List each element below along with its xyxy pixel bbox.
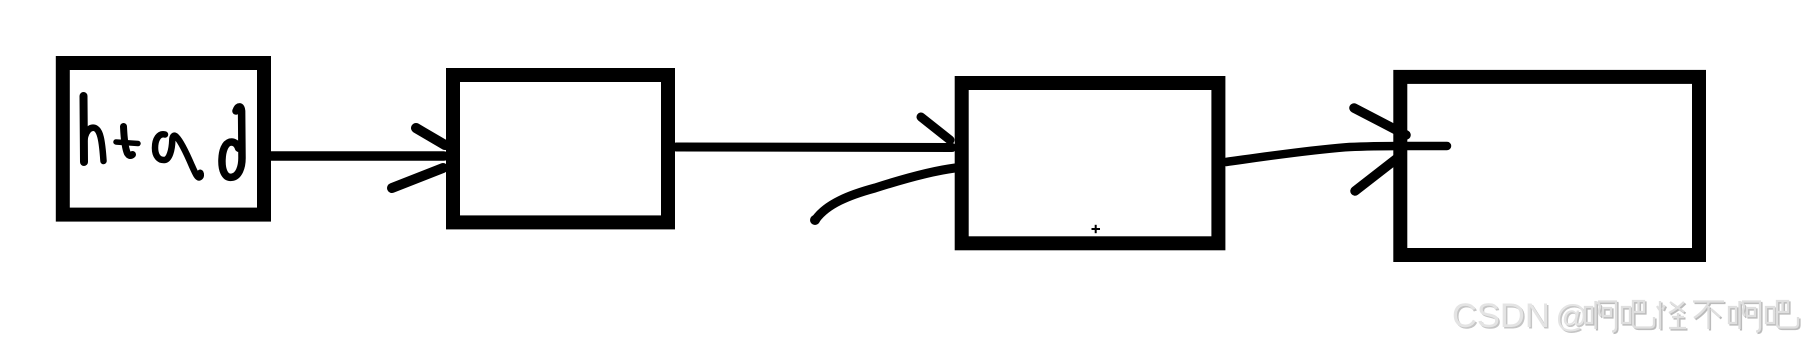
label head : letter h hump <box>84 128 104 161</box>
wire 3 arrowhead lower stroke <box>1355 156 1400 191</box>
watermark chinese glyphs light layer <box>1585 301 1798 332</box>
wire 1 shaft (head box to node 2) <box>265 151 444 161</box>
wire 3 shaft (node 3 to node 4) <box>1226 146 1447 162</box>
label head : letter h stem <box>80 96 89 162</box>
node box 3 <box>962 83 1219 243</box>
svg-text:@: @ <box>1556 298 1588 334</box>
wire 1 arrowhead lower stroke <box>392 168 443 188</box>
wire 1 arrowhead upper stroke <box>416 128 445 145</box>
label head : letter d <box>222 107 242 177</box>
wire 2 shaft (node 2 to node 3) <box>676 143 952 153</box>
wire 2 arrowhead upper stroke <box>921 117 950 140</box>
wire 3 arrowhead upper stroke <box>1354 108 1406 135</box>
node box 2 <box>453 75 668 222</box>
cursor plus mark inside node 3 <box>1092 225 1101 233</box>
watermark chinese glyphs shadow layer <box>1587 303 1800 334</box>
wire 2 arrowhead lower swoosh <box>810 168 955 225</box>
svg-text:CSDN: CSDN <box>1452 297 1550 335</box>
node box 4 <box>1400 77 1699 255</box>
label head : letter e crossbar <box>116 142 138 144</box>
label head : letter e stem <box>124 127 133 156</box>
label head : letter a squiggle <box>155 134 201 177</box>
watermark text CSDN @ <box>1452 297 1589 337</box>
node box head (list head pointer box) <box>63 63 264 215</box>
